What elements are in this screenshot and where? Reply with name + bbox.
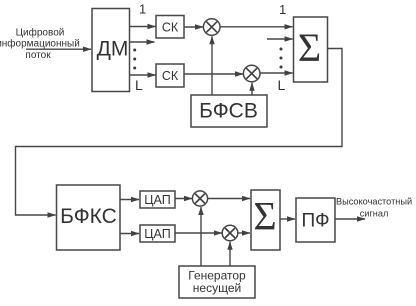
svg-text:информационный: информационный <box>0 38 80 50</box>
svg-text:СК: СК <box>162 69 179 83</box>
svg-text:1: 1 <box>139 2 146 17</box>
svg-text:1: 1 <box>279 2 286 17</box>
svg-text:L: L <box>278 77 286 93</box>
svg-text:ПФ: ПФ <box>301 211 329 232</box>
svg-text:несущей: несущей <box>193 281 241 295</box>
svg-text:Σ: Σ <box>253 193 276 238</box>
svg-text:ЦАП: ЦАП <box>144 193 170 207</box>
svg-text:L: L <box>135 77 143 93</box>
svg-text:БФКС: БФКС <box>60 205 117 228</box>
svg-text:БФСВ: БФСВ <box>199 100 258 123</box>
svg-text:Σ: Σ <box>298 25 321 70</box>
svg-text:Цифровой: Цифровой <box>16 27 65 39</box>
svg-text:СК: СК <box>162 21 179 35</box>
svg-text:сигнал: сигнал <box>360 209 389 219</box>
svg-text:Высокочастотный: Высокочастотный <box>336 197 412 207</box>
svg-text:ДМ: ДМ <box>97 38 129 61</box>
svg-text:поток: поток <box>25 50 51 61</box>
svg-text:ЦАП: ЦАП <box>144 227 170 241</box>
